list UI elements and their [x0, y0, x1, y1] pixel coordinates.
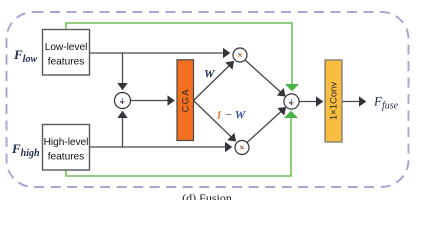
- svg-text:Ffuse: Ffuse: [373, 94, 399, 112]
- svg-text:features: features: [48, 152, 84, 163]
- svg-text:Fhigh: Fhigh: [11, 141, 40, 159]
- svg-text:(d) Fusion: (d) Fusion: [182, 191, 232, 200]
- svg-text:Low-level: Low-level: [45, 42, 88, 53]
- svg-text:1×1Conv: 1×1Conv: [329, 82, 340, 121]
- svg-text:Flow: Flow: [13, 47, 37, 65]
- svg-text:High-level: High-level: [44, 137, 89, 148]
- svg-text:1 − W: 1 − W: [216, 108, 247, 122]
- svg-text:W: W: [204, 67, 216, 81]
- svg-text:features: features: [48, 57, 84, 68]
- svg-text:CGA: CGA: [180, 88, 191, 112]
